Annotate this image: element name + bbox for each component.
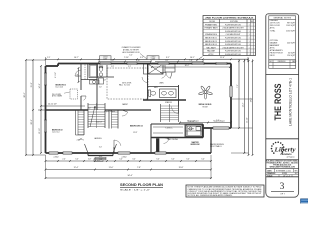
svg-text:5'-4": 5'-4" <box>77 73 79 77</box>
svg-text:ATTIC: ATTIC <box>270 27 276 30</box>
svg-text:7'-10 3/4": 7'-10 3/4" <box>188 121 195 123</box>
svg-text:16'-7": 16'-7" <box>74 57 79 59</box>
svg-text:2 UNIT: 2 UNIT <box>103 58 108 60</box>
svg-text:LANDING: LANDING <box>94 137 102 140</box>
svg-text:5'-3": 5'-3" <box>111 66 114 68</box>
svg-text:WWW.LIBERTYHOMESVA.COM: WWW.LIBERTYHOMESVA.COM <box>270 165 296 168</box>
svg-text:BEDROOM #4: BEDROOM #4 <box>130 125 143 128</box>
svg-text:FLUSH MOUNT LED: FLUSH MOUNT LED <box>225 31 242 33</box>
svg-text:ROOM: ROOM <box>203 106 209 108</box>
svg-text:5'-1 1/2": 5'-1 1/2" <box>55 72 57 78</box>
svg-text:LAKE MONTICELLO LOT 47B-1: LAKE MONTICELLO LOT 47B-1 <box>289 78 293 126</box>
svg-text:SCALE : 1/4" = 1'-0": SCALE : 1/4" = 1'-0" <box>120 188 150 191</box>
svg-text:8'-1": 8'-1" <box>166 60 169 62</box>
svg-text:HALL BATH: HALL BATH <box>206 46 216 49</box>
svg-text:2ND FLOOR LIGHTING SCHEDULE: 2ND FLOOR LIGHTING SCHEDULE <box>205 17 254 19</box>
svg-text:NOVEMBER 4, 2002: NOVEMBER 4, 2002 <box>276 170 291 172</box>
svg-text:7'-8": 7'-8" <box>137 167 141 169</box>
svg-text:SHT: SHT <box>295 173 298 175</box>
svg-text:THE ROSS: THE ROSS <box>273 84 283 121</box>
svg-text:HALLWAY: HALLWAY <box>207 50 216 53</box>
svg-text:8'-0 CLG: 8'-0 CLG <box>124 85 131 87</box>
svg-text:3'-1": 3'-1" <box>128 66 131 68</box>
svg-text:1145 SQFT: 1145 SQFT <box>286 25 296 27</box>
svg-text:FIXTURE: FIXTURE <box>230 21 238 23</box>
svg-text:5'-0": 5'-0" <box>75 159 79 161</box>
svg-text:FLUSH MOUNT LED: FLUSH MOUNT LED <box>225 51 242 53</box>
svg-text:FLUSH MOUNT LED: FLUSH MOUNT LED <box>225 44 242 46</box>
svg-text:14'-2": 14'-2" <box>243 102 245 107</box>
svg-text:FLUSH MOUNT LED: FLUSH MOUNT LED <box>225 41 242 43</box>
svg-text:5'-4": 5'-4" <box>201 159 205 161</box>
svg-text:5'-0": 5'-0" <box>156 159 160 161</box>
svg-text:BEDROOM #2: BEDROOM #2 <box>52 130 63 132</box>
svg-text:21'-10": 21'-10" <box>247 117 249 123</box>
svg-text:BEDROOM #3: BEDROOM #3 <box>205 41 217 43</box>
svg-text:BEDROOM #4: BEDROOM #4 <box>205 44 217 46</box>
svg-text:2 BULB BATHROOM LIGHT: 2 BULB BATHROOM LIGHT <box>222 46 243 49</box>
svg-text:15'-8": 15'-8" <box>31 82 33 87</box>
svg-text:ATTIC: ATTIC <box>209 53 215 56</box>
svg-text:2132 SQFT: 2132 SQFT <box>286 30 296 32</box>
svg-text:11-0 x 12-6: 11-0 x 12-6 <box>56 87 64 89</box>
svg-text:4: 4 <box>197 59 198 61</box>
svg-text:3'-4": 3'-4" <box>132 159 136 161</box>
svg-text:120 SQFT: 120 SQFT <box>287 55 296 57</box>
svg-text:16'-1": 16'-1" <box>190 57 195 59</box>
svg-text:MEDIA / BONUS: MEDIA / BONUS <box>199 103 213 106</box>
svg-text:TOTAL: TOTAL <box>270 29 276 32</box>
svg-text:REVISION: REVISION <box>278 61 286 63</box>
svg-text:7'-6": 7'-6" <box>216 120 220 122</box>
svg-text:28'-0": 28'-0" <box>24 92 26 97</box>
svg-text:2'-4": 2'-4" <box>62 159 66 161</box>
svg-text:2'-3": 2'-3" <box>47 57 51 59</box>
svg-text:FLUSH MOUNT LED: FLUSH MOUNT LED <box>225 54 242 56</box>
svg-text:M.W.B.: M.W.B. <box>282 173 287 175</box>
svg-text:3: 3 <box>280 182 285 192</box>
svg-text:REV: REV <box>295 170 298 172</box>
svg-text:PRIMARY BED: PRIMARY BED <box>205 23 218 26</box>
svg-text:14'-2": 14'-2" <box>39 83 41 88</box>
svg-text:11-2 x 12-0: 11-2 x 12-0 <box>52 132 60 134</box>
svg-text:STAIR/BONUS: STAIR/BONUS <box>205 33 218 36</box>
svg-text:2 UNIT: 2 UNIT <box>151 58 156 60</box>
svg-text:DECK: DECK <box>270 55 276 57</box>
svg-text:11'-4": 11'-4" <box>220 57 225 59</box>
svg-text:2-3052: 2-3052 <box>151 57 156 59</box>
svg-text:BEDROOM: BEDROOM <box>191 144 200 146</box>
svg-text:FLUSH MOUNT LED: FLUSH MOUNT LED <box>225 24 242 26</box>
svg-text:22'-2": 22'-2" <box>31 119 33 124</box>
svg-text:2-3052: 2-3052 <box>54 156 59 158</box>
svg-text:7'-11": 7'-11" <box>189 60 193 62</box>
svg-text:5'-0": 5'-0" <box>119 159 123 161</box>
svg-text:5'-10": 5'-10" <box>136 60 140 62</box>
svg-text:16'-2": 16'-2" <box>185 65 190 67</box>
svg-text:2-3052: 2-3052 <box>122 156 127 158</box>
svg-text:ROOM: ROOM <box>209 21 215 23</box>
svg-text:7'-2": 7'-2" <box>237 84 239 88</box>
svg-text:PULL DOWN: PULL DOWN <box>52 94 61 96</box>
svg-text:12'-4": 12'-4" <box>74 167 79 169</box>
svg-text:5'-2": 5'-2" <box>111 60 114 62</box>
svg-text:12'-8": 12'-8" <box>133 132 138 134</box>
svg-text:5'-0": 5'-0" <box>171 159 175 161</box>
svg-text:BEDROOM #2: BEDROOM #2 <box>205 37 217 39</box>
svg-text:2-3052: 2-3052 <box>103 57 108 59</box>
svg-text:FLUSH MOUNT LED: FLUSH MOUNT LED <box>225 37 242 39</box>
svg-text:28'-0": 28'-0" <box>251 97 253 102</box>
svg-text:6'-0": 6'-0" <box>129 55 133 57</box>
svg-text:24'-10 1/2": 24'-10 1/2" <box>48 104 57 106</box>
svg-text:9'-1": 9'-1" <box>166 57 170 59</box>
svg-text:19'-8": 19'-8" <box>179 167 184 169</box>
svg-text:7'-6 W.I.C.: 7'-6 W.I.C. <box>165 128 173 130</box>
svg-text:5'-2": 5'-2" <box>140 57 144 59</box>
svg-text:PRIMARY BATH: PRIMARY BATH <box>205 27 219 30</box>
svg-text:SECOND FLOOR PLAN: SECOND FLOOR PLAN <box>120 183 164 187</box>
svg-text:2'-10": 2'-10" <box>77 140 81 142</box>
svg-text:7'-10": 7'-10" <box>124 57 129 59</box>
svg-text:4'-10 1/2": 4'-10 1/2" <box>96 122 103 124</box>
svg-text:3052: 3052 <box>99 156 103 158</box>
svg-text:CLG FAN W/LIGHT: CLG FAN W/LIGHT <box>226 33 241 36</box>
svg-text:5'-0": 5'-0" <box>99 147 103 149</box>
svg-text:2'-8": 2'-8" <box>88 159 92 161</box>
svg-text:2 BULB BATHROOM LIGHT: 2 BULB BATHROOM LIGHT <box>222 27 243 30</box>
svg-text:3'-0": 3'-0" <box>99 159 103 161</box>
svg-text:13'-10": 13'-10" <box>39 128 41 134</box>
svg-text:LINEN: LINEN <box>159 83 163 85</box>
svg-text:440 SQFT: 440 SQFT <box>287 43 296 45</box>
svg-text:5'-0": 5'-0" <box>186 159 190 161</box>
svg-text:of Virginia: of Virginia <box>286 155 294 158</box>
svg-text:2'-8": 2'-8" <box>103 80 106 82</box>
svg-text:11'-0": 11'-0" <box>109 167 114 169</box>
svg-text:BEDROOM #3: BEDROOM #3 <box>56 85 67 87</box>
svg-text:34'-4": 34'-4" <box>127 175 132 177</box>
